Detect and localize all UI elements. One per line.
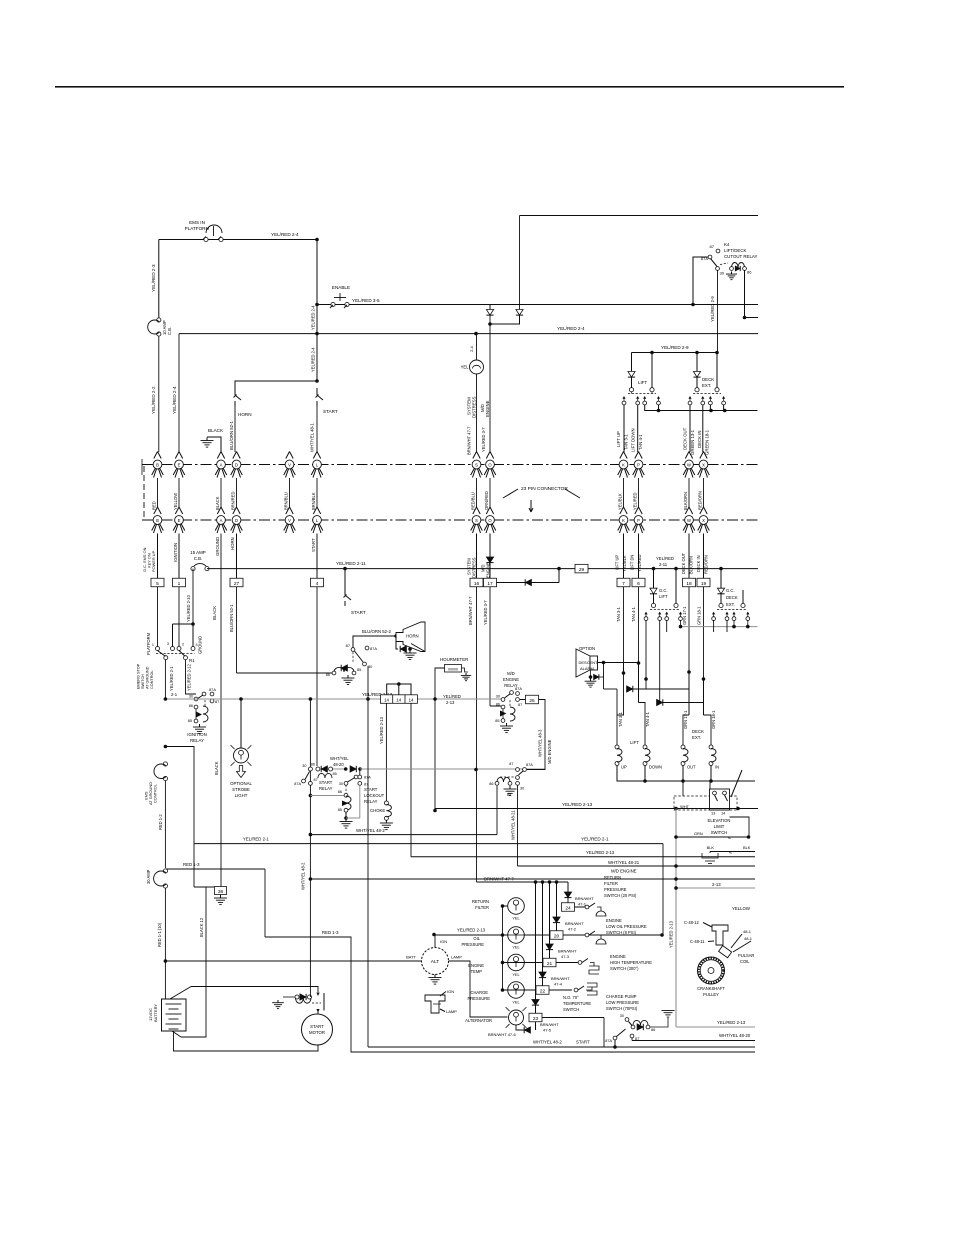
svg-text:30: 30 bbox=[189, 695, 193, 699]
svg-text:WHT/YEL 48-21: WHT/YEL 48-21 bbox=[608, 860, 640, 865]
wire yel/red 2-12 bbox=[186, 660, 197, 694]
wire yel/red 2-4 bus bbox=[179, 333, 758, 335]
svg-text:X: X bbox=[702, 518, 705, 523]
terminal 21 bbox=[543, 958, 556, 967]
wire drop x=519 bbox=[519, 216, 521, 310]
horn speaker bbox=[396, 622, 425, 652]
pin W row1 bbox=[685, 452, 689, 459]
svg-text:ENGINE: ENGINE bbox=[606, 918, 622, 923]
svg-text:BLU/ORN 52-1: BLU/ORN 52-1 bbox=[229, 420, 234, 450]
svg-text:86: 86 bbox=[651, 1028, 655, 1032]
svg-text:ALTERNATOR: ALTERNATOR bbox=[465, 1018, 492, 1023]
svg-text:V: V bbox=[288, 462, 291, 467]
svg-text:85: 85 bbox=[495, 719, 499, 723]
svg-text:YEL/RED 2-1: YEL/RED 2-1 bbox=[243, 837, 269, 842]
svg-text:YEL/RED: YEL/RED bbox=[443, 694, 461, 699]
lamp alternator bbox=[509, 1010, 524, 1025]
wire wht/yel 48-3 bbox=[527, 700, 545, 770]
terminal 25 bbox=[526, 695, 539, 704]
svg-text:C-48-11: C-48-11 bbox=[690, 939, 705, 944]
G.C. DECK lower block bbox=[720, 569, 722, 588]
svg-text:87: 87 bbox=[346, 643, 350, 648]
relay start lockout bbox=[354, 775, 358, 779]
terminal 23 bbox=[529, 1013, 542, 1022]
svg-text:BRN/WHT: BRN/WHT bbox=[565, 921, 584, 926]
svg-text:YEL: YEL bbox=[512, 1000, 520, 1005]
svg-text:YEL/RED 2-13: YEL/RED 2-13 bbox=[379, 716, 384, 744]
svg-text:EMERG STOP: EMERG STOP bbox=[137, 663, 141, 689]
pin X row2 bbox=[700, 507, 704, 514]
svg-text:24: 24 bbox=[565, 905, 571, 911]
svg-text:36: 36 bbox=[218, 889, 224, 895]
svg-text:TAN 4-1: TAN 4-1 bbox=[638, 434, 643, 450]
svg-text:3: 3 bbox=[167, 642, 169, 646]
svg-text:START: START bbox=[364, 787, 378, 792]
svg-text:RED: RED bbox=[152, 501, 157, 510]
node 87A to enable line bbox=[691, 303, 695, 307]
gray collector line bbox=[680, 620, 682, 627]
svg-text:C.B.: C.B. bbox=[194, 556, 203, 561]
svg-text:87A: 87A bbox=[515, 686, 522, 691]
svg-text:LIFT: LIFT bbox=[659, 594, 668, 599]
svg-text:M/D: M/D bbox=[507, 671, 515, 676]
wires to pins K P W X bbox=[623, 405, 625, 453]
wire horn relay 30 down bbox=[367, 666, 369, 699]
svg-text:4: 4 bbox=[316, 581, 319, 587]
gauge return filter bbox=[508, 898, 525, 915]
svg-text:YEL: YEL bbox=[512, 916, 520, 921]
alternator AL1 bbox=[422, 948, 449, 975]
wire wht/yel 48-21 y=866 bbox=[518, 865, 756, 867]
svg-text:ALARM: ALARM bbox=[580, 666, 594, 671]
svg-text:POWER UP: POWER UP bbox=[151, 550, 156, 572]
wire yel/red 2-13 right branch bbox=[410, 703, 412, 856]
svg-text:GRN 17-1: GRN 17-1 bbox=[682, 606, 687, 625]
svg-text:DECK IN: DECK IN bbox=[696, 555, 701, 572]
svg-text:BLACK: BLACK bbox=[208, 428, 224, 433]
optional strobe light bbox=[240, 699, 242, 748]
svg-text:YEL/RED: YEL/RED bbox=[633, 492, 638, 510]
wire yel/red 2-13 y=856.7 bbox=[411, 856, 755, 858]
svg-text:PULLEY: PULLEY bbox=[703, 992, 719, 997]
svg-text:R1: R1 bbox=[189, 658, 195, 663]
gauge charge pressure bbox=[508, 982, 525, 999]
svg-text:RED 1-3: RED 1-3 bbox=[322, 930, 339, 935]
wire to platform sw 2 bbox=[178, 587, 180, 647]
svg-text:SWITCH (300°): SWITCH (300°) bbox=[610, 966, 639, 971]
svg-text:29: 29 bbox=[579, 567, 585, 573]
svg-text:FILTER: FILTER bbox=[475, 905, 489, 910]
svg-text:IN: IN bbox=[715, 765, 719, 770]
wire to platform sw 1 bbox=[157, 587, 159, 647]
wire enable yel/red 3-5 line bbox=[317, 304, 758, 306]
svg-text:BRN/BLU: BRN/BLU bbox=[284, 492, 289, 510]
svg-text:YEL/RED 2-3: YEL/RED 2-3 bbox=[151, 264, 156, 292]
svg-text:YEL: YEL bbox=[461, 365, 470, 370]
svg-text:YEL/RED 2-13: YEL/RED 2-13 bbox=[586, 850, 615, 855]
pin K row2 bbox=[620, 507, 624, 514]
svg-text:BRN/WHT: BRN/WHT bbox=[540, 1022, 559, 1027]
svg-text:WHT/YEL 48-2: WHT/YEL 48-2 bbox=[301, 862, 306, 890]
svg-text:YEL/RED 2-2: YEL/RED 2-2 bbox=[151, 386, 156, 414]
svg-text:YEL/RED 3-7: YEL/RED 3-7 bbox=[483, 600, 488, 625]
svg-text:ENGINE: ENGINE bbox=[485, 400, 490, 417]
relay K3 horn bbox=[351, 648, 355, 652]
svg-text:DECK: DECK bbox=[702, 377, 714, 382]
svg-text:START: START bbox=[576, 1040, 590, 1045]
svg-text:19: 19 bbox=[701, 581, 707, 587]
pin B row1 bbox=[154, 452, 158, 459]
svg-text:WHT/YEL 48-21: WHT/YEL 48-21 bbox=[511, 810, 516, 840]
wire x=435 down bbox=[434, 699, 436, 811]
svg-text:BRN/WHT: BRN/WHT bbox=[558, 949, 577, 954]
pin S row2 bbox=[473, 507, 477, 514]
terminal 24 bbox=[562, 903, 575, 912]
wire left drop to 10A CB bbox=[158, 240, 160, 320]
svg-text:CRANKSHAFT: CRANKSHAFT bbox=[697, 986, 725, 991]
svg-text:RED/ORN: RED/ORN bbox=[698, 491, 703, 510]
svg-text:LOW OIL PRESSURE: LOW OIL PRESSURE bbox=[606, 924, 647, 929]
svg-text:GROUND: GROUND bbox=[198, 636, 203, 654]
svg-text:HOURMETER: HOURMETER bbox=[440, 657, 468, 662]
svg-text:CHARGE: CHARGE bbox=[470, 990, 488, 995]
svg-text:47-2: 47-2 bbox=[568, 927, 577, 932]
svg-text:YELLOW: YELLOW bbox=[732, 906, 751, 911]
svg-text:21: 21 bbox=[547, 961, 553, 967]
wire wht/yel 48-1 down bbox=[316, 587, 318, 766]
svg-text:RED 1-2: RED 1-2 bbox=[158, 814, 163, 830]
svg-text:GRN 17-1: GRN 17-1 bbox=[683, 710, 688, 729]
svg-text:TAN 4-1: TAN 4-1 bbox=[631, 606, 636, 622]
terminal 17 bbox=[484, 578, 497, 587]
svg-text:«: « bbox=[729, 850, 732, 856]
svg-text:LIMIT: LIMIT bbox=[714, 824, 725, 829]
svg-text:CONTROL: CONTROL bbox=[153, 783, 158, 803]
svg-text:87: 87 bbox=[314, 778, 318, 782]
svg-text:START: START bbox=[323, 409, 338, 414]
pin D row1 bbox=[233, 452, 237, 459]
svg-text:YEL/RED 2-12: YEL/RED 2-12 bbox=[187, 663, 192, 691]
svg-text:23 PIN CONNECTOR: 23 PIN CONNECTOR bbox=[521, 486, 568, 492]
svg-text:YEL/RED 2-4: YEL/RED 2-4 bbox=[311, 347, 316, 372]
svg-text:14: 14 bbox=[396, 698, 401, 703]
svg-text:HORN: HORN bbox=[238, 412, 252, 417]
svg-text:87: 87 bbox=[509, 762, 513, 766]
svg-text:YEL/RED 2-9: YEL/RED 2-9 bbox=[661, 345, 689, 350]
wire yel/red 3-7 to pin O bbox=[489, 315, 491, 452]
svg-text:YEL/RED 2-13: YEL/RED 2-13 bbox=[717, 1020, 746, 1025]
pin E row2 bbox=[175, 507, 179, 514]
svg-text:TEMPERTURE: TEMPERTURE bbox=[563, 1001, 591, 1006]
wire to lift up solenoid bbox=[617, 673, 624, 747]
wire wht/yel 48-20 right bbox=[360, 768, 545, 770]
pin A row2 bbox=[217, 507, 221, 514]
svg-text:DECK OUT: DECK OUT bbox=[683, 427, 688, 450]
svg-text:HORN: HORN bbox=[230, 537, 235, 550]
svg-text:85: 85 bbox=[357, 668, 361, 672]
wire grn 18-1 down bbox=[703, 587, 705, 679]
wire 2-13 gray y=888 bbox=[676, 887, 755, 889]
wire yel/red 2-10 bbox=[192, 569, 194, 624]
wire tan 3-1 down bbox=[623, 587, 625, 663]
svg-text:WHT/YEL 48-3: WHT/YEL 48-3 bbox=[538, 729, 543, 757]
svg-text:LIFT/DECK: LIFT/DECK bbox=[724, 248, 747, 253]
gauge oil pressure bbox=[508, 927, 525, 944]
svg-text:BRN/RED: BRN/RED bbox=[231, 492, 236, 510]
switch START pushbutton bbox=[316, 388, 318, 395]
svg-text:BLU/ORN 52-1: BLU/ORN 52-1 bbox=[229, 604, 234, 632]
svg-text:CHOKE: CHOKE bbox=[370, 808, 385, 813]
svg-text:TAN 4-1: TAN 4-1 bbox=[645, 711, 650, 727]
wire top platform line bbox=[159, 239, 317, 241]
svg-text:YEL/RED 2-4: YEL/RED 2-4 bbox=[172, 386, 177, 414]
svg-text:87: 87 bbox=[215, 699, 219, 704]
svg-text:K: K bbox=[622, 462, 625, 467]
svg-text:GROUND: GROUND bbox=[215, 537, 220, 556]
svg-text:18: 18 bbox=[686, 581, 692, 587]
svg-text:1: 1 bbox=[178, 581, 181, 587]
pin E row1 bbox=[175, 452, 179, 459]
svg-text:RED/BLU: RED/BLU bbox=[471, 492, 476, 510]
wire wht/yel 48-1 to pin L bbox=[316, 406, 318, 452]
svg-text:EMS IN: EMS IN bbox=[189, 220, 205, 225]
svg-text:LIFT DOWN: LIFT DOWN bbox=[631, 428, 636, 452]
lamp feed diode bbox=[535, 1022, 537, 1030]
svg-text:86: 86 bbox=[311, 763, 315, 767]
svg-text:TAN 3-1: TAN 3-1 bbox=[616, 606, 621, 622]
svg-text:CUTOUT RELAY: CUTOUT RELAY bbox=[724, 254, 757, 259]
svg-text:BATTERY: BATTERY bbox=[153, 1004, 158, 1022]
svg-text:UP: UP bbox=[621, 765, 627, 770]
svg-text:ENGINE: ENGINE bbox=[610, 954, 626, 959]
pin L row1 bbox=[313, 452, 317, 459]
svg-text:C.B.: C.B. bbox=[167, 327, 172, 335]
svg-text:YEL/RED 3-7: YEL/RED 3-7 bbox=[481, 427, 486, 452]
wire to lift down solenoid bbox=[644, 703, 646, 748]
svg-text:30: 30 bbox=[520, 787, 524, 791]
left edge connector stub bbox=[141, 459, 143, 475]
svg-text:13: 13 bbox=[711, 811, 715, 816]
svg-text:OUT: OUT bbox=[687, 765, 696, 770]
pin O row2 bbox=[486, 507, 490, 514]
svg-text:ALT: ALT bbox=[431, 959, 440, 965]
top rule bbox=[55, 86, 844, 88]
svg-text:RELAY: RELAY bbox=[190, 738, 204, 743]
svg-text:BLACK: BLACK bbox=[215, 496, 220, 510]
svg-text:B: B bbox=[156, 462, 159, 467]
wire start power x=310 bbox=[309, 699, 311, 879]
start motor bbox=[302, 1014, 333, 1045]
svg-text:YEL: YEL bbox=[512, 945, 520, 950]
svg-text:M/D ENGINE: M/D ENGINE bbox=[611, 869, 637, 874]
svg-text:00000: 00000 bbox=[448, 667, 458, 671]
svg-text:N.O. 70°: N.O. 70° bbox=[563, 995, 579, 1000]
svg-text:25: 25 bbox=[529, 698, 535, 704]
svg-text:PLATFORM: PLATFORM bbox=[146, 632, 151, 655]
svg-text:START: START bbox=[311, 538, 316, 552]
svg-text:OIL: OIL bbox=[473, 936, 480, 941]
svg-text:TEMP: TEMP bbox=[471, 969, 483, 974]
terminal 27 bbox=[230, 578, 243, 587]
svg-text:EXT.: EXT. bbox=[692, 735, 701, 740]
wire to choke bbox=[385, 703, 387, 803]
svg-text:RELAY: RELAY bbox=[364, 799, 378, 804]
wire yel/red 2-4 to pin E bbox=[178, 334, 180, 452]
pin S row1 bbox=[473, 452, 477, 459]
battery 12VDC bbox=[162, 999, 187, 1031]
svg-text:2: 2 bbox=[182, 643, 184, 647]
sender bus verticals bbox=[502, 906, 504, 990]
svg-text:BLK: BLK bbox=[707, 845, 715, 850]
svg-text:D: D bbox=[235, 518, 238, 523]
svg-text:LIFT UP: LIFT UP bbox=[616, 431, 621, 447]
wire yel/red 2-11 bus bbox=[207, 568, 758, 570]
svg-text:DOWN: DOWN bbox=[649, 765, 662, 770]
svg-text:SWITCH: SWITCH bbox=[563, 1007, 579, 1012]
svg-text:YEL/RED 2-11: YEL/RED 2-11 bbox=[336, 561, 366, 566]
wire 30 down wht/yel 48-21 bbox=[517, 785, 519, 866]
svg-text:P: P bbox=[637, 518, 640, 523]
wire grn 17-1 down bbox=[688, 587, 690, 672]
wire y=879 bbox=[310, 878, 755, 880]
svg-text:87A: 87A bbox=[370, 646, 377, 651]
svg-text:SWITCH: SWITCH bbox=[711, 830, 728, 835]
gauge engine temp bbox=[508, 954, 525, 971]
svg-text:48-1: 48-1 bbox=[744, 936, 753, 941]
23 pin connector row 2 bbox=[142, 519, 758, 521]
svg-text:YEL/RED 2-1: YEL/RED 2-1 bbox=[581, 837, 609, 842]
svg-text:E: E bbox=[178, 518, 181, 523]
wire yel/red 2-1 y=843.6 bbox=[194, 843, 663, 845]
svg-text:DECK: DECK bbox=[692, 729, 704, 734]
svg-text:YEL/RED: YEL/RED bbox=[637, 554, 642, 572]
svg-text:PRESSURE: PRESSURE bbox=[461, 942, 484, 947]
wire batt line bbox=[165, 960, 421, 962]
svg-text:47-3: 47-3 bbox=[561, 954, 570, 959]
svg-text:HORN: HORN bbox=[406, 634, 419, 639]
svg-text:YEL/RED 3-5: YEL/RED 3-5 bbox=[352, 298, 380, 303]
svg-text:START: START bbox=[319, 780, 333, 785]
svg-text:OPTIONAL: OPTIONAL bbox=[230, 781, 252, 786]
svg-text:TAN 3-1: TAN 3-1 bbox=[624, 434, 629, 450]
wire yel/red 2-1 left bbox=[164, 745, 168, 749]
svg-text:BLACK 12: BLACK 12 bbox=[199, 917, 204, 937]
svg-text:14: 14 bbox=[384, 698, 389, 703]
svg-text:2-4: 2-4 bbox=[469, 345, 474, 352]
svg-text:A: A bbox=[220, 462, 223, 467]
svg-text:30: 30 bbox=[620, 1014, 624, 1018]
pin O row1 bbox=[486, 452, 490, 459]
svg-text:CONTROL: CONTROL bbox=[150, 670, 154, 689]
svg-text:86: 86 bbox=[489, 782, 493, 786]
svg-text:7: 7 bbox=[622, 581, 625, 587]
relay mid engine lower bbox=[516, 768, 520, 772]
svg-text:30: 30 bbox=[302, 764, 306, 768]
node yel/red 2-4 top bbox=[315, 238, 319, 242]
svg-text:ORN/RED: ORN/RED bbox=[484, 491, 489, 510]
svg-text:C-48-12: C-48-12 bbox=[684, 920, 700, 925]
svg-text:48-1: 48-1 bbox=[743, 929, 752, 934]
crankshaft pulley bbox=[698, 957, 725, 984]
svg-text:IGNITION: IGNITION bbox=[187, 732, 207, 737]
G.C. DECK switch block bbox=[696, 353, 698, 372]
svg-text:BRN/WHT 47-7: BRN/WHT 47-7 bbox=[467, 426, 472, 455]
wire vertical x=317 bbox=[316, 240, 318, 382]
svg-text:LIFT: LIFT bbox=[638, 380, 647, 385]
svg-text:DECK IN: DECK IN bbox=[697, 431, 702, 448]
svg-text:YEL/RED 2-13: YEL/RED 2-13 bbox=[562, 802, 593, 807]
alarm diode loop bbox=[590, 670, 592, 677]
svg-text:BRN/WHT 47-7: BRN/WHT 47-7 bbox=[484, 877, 514, 882]
svg-text:15 AMP: 15 AMP bbox=[190, 550, 205, 555]
svg-text:30: 30 bbox=[720, 271, 725, 276]
battery negative cable bbox=[174, 1031, 319, 1051]
alternator plug bbox=[425, 995, 445, 1013]
wire blu/orn 52-1 down bbox=[236, 587, 238, 673]
svg-text:86: 86 bbox=[747, 270, 752, 275]
svg-text:86: 86 bbox=[326, 673, 330, 677]
svg-text:RED 1-1 (10): RED 1-1 (10) bbox=[157, 922, 162, 947]
wire yel/red 3-7 down bbox=[489, 587, 491, 706]
svg-text:GREEN 13-1: GREEN 13-1 bbox=[690, 429, 695, 455]
svg-text:PLATFORM: PLATFORM bbox=[185, 226, 210, 231]
wire wht/yel 48-2 y=834.6 bbox=[310, 834, 497, 836]
svg-text:W: W bbox=[687, 462, 691, 467]
pin D row2 bbox=[233, 507, 237, 514]
svg-text:BATT: BATT bbox=[406, 955, 416, 960]
svg-text:85: 85 bbox=[188, 719, 192, 723]
svg-text:YEL/RED 2-9: YEL/RED 2-9 bbox=[710, 296, 715, 322]
svg-text:ENABLE: ENABLE bbox=[332, 285, 350, 290]
svg-text:2-13: 2-13 bbox=[446, 700, 455, 705]
pin V row1 bbox=[286, 452, 290, 459]
wire red 1-3 bbox=[165, 868, 265, 870]
wire brn/wht 47-7 down bbox=[476, 587, 478, 882]
svg-text:RED 1-3: RED 1-3 bbox=[183, 862, 200, 867]
wire yel/red 2-13 y=808 bbox=[435, 808, 758, 810]
terminal 1 bbox=[173, 578, 186, 587]
svg-text:85: 85 bbox=[507, 793, 511, 797]
svg-text:47-5: 47-5 bbox=[543, 1028, 552, 1033]
svg-text:SWITCH: SWITCH bbox=[141, 674, 145, 689]
svg-text:YEL/BLK: YEL/BLK bbox=[622, 555, 627, 572]
svg-text:48-20: 48-20 bbox=[333, 762, 344, 767]
svg-text:RETURN: RETURN bbox=[604, 875, 621, 880]
terminal 7 bbox=[617, 578, 630, 587]
svg-text:K: K bbox=[622, 518, 625, 523]
svg-text:STROBE: STROBE bbox=[232, 787, 250, 792]
terminal 18 bbox=[683, 578, 696, 587]
wire row y=410 bbox=[645, 405, 758, 411]
terminal 16 bbox=[470, 578, 483, 587]
svg-text:ENGINE: ENGINE bbox=[503, 677, 519, 682]
wire yel/red 2-13 gauges bbox=[434, 934, 663, 936]
svg-text:YEL/RED 2-4: YEL/RED 2-4 bbox=[311, 305, 316, 330]
svg-text:DISTRESS: DISTRESS bbox=[472, 396, 477, 418]
switch HORN pushbutton bbox=[234, 388, 236, 395]
svg-text:BLK: BLK bbox=[743, 845, 751, 850]
pin B row2 bbox=[154, 507, 158, 514]
svg-text:DECK OUT: DECK OUT bbox=[681, 552, 686, 574]
wire to deck out solenoid bbox=[683, 715, 689, 747]
svg-text:BRN/WHT 47-7: BRN/WHT 47-7 bbox=[468, 596, 473, 625]
svg-text:86: 86 bbox=[189, 704, 193, 708]
diode D2 bbox=[516, 310, 523, 316]
svg-text:EXT.: EXT. bbox=[702, 383, 711, 388]
svg-text:20: 20 bbox=[554, 933, 560, 939]
ground box 36 bbox=[194, 886, 214, 888]
svg-text:DISTRESS: DISTRESS bbox=[472, 557, 477, 578]
